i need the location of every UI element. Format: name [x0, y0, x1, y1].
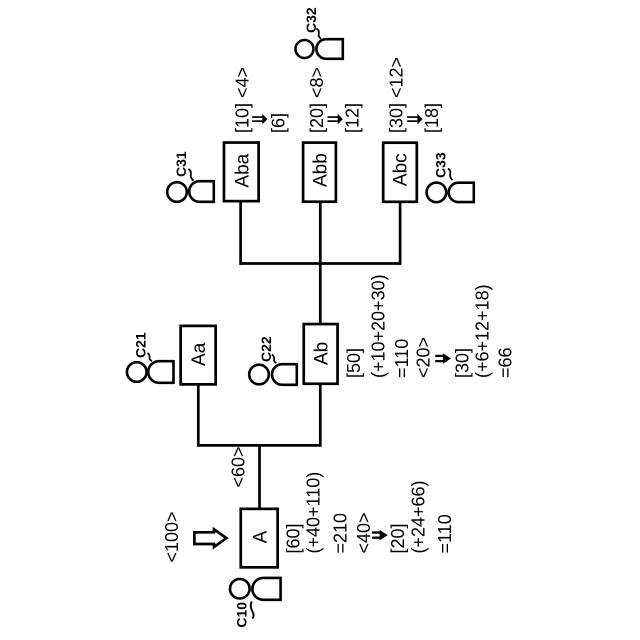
svg-text:=66: =66: [495, 347, 515, 378]
svg-text:<40>: <40>: [354, 512, 374, 553]
svg-text:[18]: [18]: [422, 103, 442, 133]
svg-text:(+6+12+18): (+6+12+18): [473, 284, 493, 378]
person icon C32: [296, 39, 343, 59]
text block Ab arrow: [435, 353, 451, 364]
wire trunk2 to Abc: [399, 200, 402, 265]
svg-text:=110: =110: [392, 339, 412, 378]
svg-text:Abb: Abb: [311, 153, 332, 187]
svg-text:C32: C32: [303, 7, 319, 33]
svg-text:[6]: [6]: [269, 113, 289, 133]
box A: [241, 509, 278, 567]
svg-text:<100>: <100>: [162, 511, 182, 562]
text block Abb arrow: [328, 114, 343, 125]
svg-text:(+40+110): (+40+110): [304, 472, 324, 554]
squiggle C21: [148, 353, 153, 361]
svg-text:=110: =110: [435, 514, 455, 553]
squiggle C31: [189, 169, 194, 181]
text block Aba arrow: [252, 114, 267, 125]
person icon C21: [127, 361, 174, 383]
box Aa: [181, 326, 216, 384]
svg-text:C33: C33: [433, 152, 449, 178]
box Ab: [304, 324, 338, 384]
wire trunk2 to Aba: [239, 200, 242, 265]
wire trunk2: [239, 262, 401, 265]
box Abc: [383, 143, 417, 202]
person icon C10: [230, 578, 281, 600]
svg-text:[30] <12>: [30] <12>: [386, 57, 406, 133]
svg-text:(+10+20+30): (+10+20+30): [369, 274, 389, 378]
person icon C33: [427, 183, 474, 203]
squiggle C22: [272, 355, 277, 364]
svg-text:=210: =210: [330, 513, 350, 554]
text block A arrow: [372, 530, 388, 541]
svg-text:[12]: [12]: [343, 103, 363, 133]
squiggle C33: [448, 169, 453, 181]
svg-text:[60]: [60]: [284, 523, 304, 553]
svg-text:C22: C22: [258, 336, 274, 362]
svg-text:Aa: Aa: [189, 342, 210, 366]
wire A to trunk1: [258, 444, 261, 508]
svg-text:C21: C21: [133, 332, 149, 358]
svg-text:[20]: [20]: [388, 523, 408, 553]
svg-text:(+24+66): (+24+66): [408, 480, 428, 553]
svg-text:Ab: Ab: [312, 342, 333, 365]
block arrow: [194, 529, 226, 547]
svg-text:Aba: Aba: [232, 153, 253, 187]
svg-text:<20>: <20>: [413, 337, 433, 378]
squiggle C10: [251, 602, 254, 619]
svg-text:<60>: <60>: [229, 446, 249, 487]
wire Ab to Abb through trunk2: [319, 200, 322, 325]
svg-text:A: A: [251, 530, 272, 543]
wire trunk1 to Ab: [319, 383, 322, 447]
person icon C31: [167, 181, 214, 202]
svg-text:C10: C10: [234, 602, 250, 628]
svg-text:Abc: Abc: [391, 153, 412, 186]
svg-text:C31: C31: [173, 151, 189, 177]
svg-text:[10] <4>: [10] <4>: [232, 67, 252, 133]
box Abb: [303, 143, 336, 202]
svg-text:[30]: [30]: [452, 348, 472, 378]
squiggle C32: [317, 29, 322, 40]
text block Abc arrow: [407, 114, 422, 125]
box Aba: [224, 143, 259, 202]
wire trunk1: [197, 444, 322, 447]
wire trunk1 to Aa: [197, 384, 200, 447]
person icon C22: [249, 364, 297, 385]
svg-text:[50]: [50]: [344, 348, 364, 378]
svg-text:[20] <8>: [20] <8>: [307, 67, 327, 133]
